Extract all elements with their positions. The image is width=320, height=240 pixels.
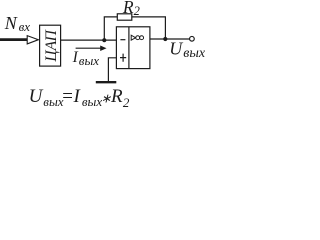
- svg-text:ЦАП: ЦАП: [43, 29, 60, 62]
- svg-text:I: I: [72, 49, 79, 66]
- svg-text:вых: вых: [79, 53, 99, 68]
- svg-text:=: =: [61, 86, 74, 107]
- svg-text:N: N: [4, 13, 18, 33]
- svg-text:вых: вых: [183, 46, 206, 61]
- svg-text:2: 2: [123, 95, 130, 110]
- svg-text:U: U: [29, 86, 44, 107]
- svg-text:U: U: [169, 38, 183, 58]
- svg-text:вх: вх: [19, 19, 31, 34]
- svg-text:2: 2: [134, 4, 140, 18]
- svg-text:R: R: [110, 86, 123, 107]
- svg-text:вых: вых: [82, 94, 102, 109]
- svg-text:R: R: [122, 0, 134, 17]
